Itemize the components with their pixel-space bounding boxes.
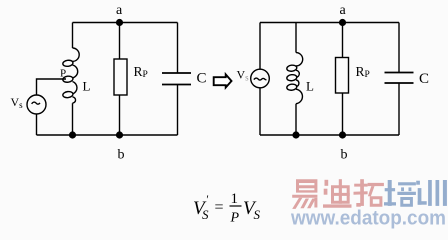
wire: left circuit top rail (73, 22, 178, 24)
svg-text:C: C (419, 71, 429, 87)
svg-text:www.edatop.com: www.edatop.com (290, 208, 446, 230)
wire: left source bottom (36, 114, 38, 135)
wire: right C branch bottom (398, 83, 400, 135)
resistor Rp (right) (336, 58, 349, 94)
char 训 (416, 181, 420, 185)
node b (left) junction dot (116, 131, 123, 138)
svg-text:=: = (215, 199, 224, 216)
wire: right Rp branch bottom (342, 93, 344, 135)
wire: right source branch bottom (259, 88, 261, 135)
wire: left inductor branch top (72, 23, 74, 49)
block arrow (214, 74, 232, 87)
inductor L (right) (286, 53, 302, 104)
svg-text:RP: RP (356, 64, 370, 80)
node b (right) junction dot (339, 131, 346, 138)
node: right bottom junction dot (L branch) (292, 131, 299, 138)
wire: left inductor branch bottom (72, 103, 74, 135)
svg-text:b: b (341, 148, 348, 163)
svg-text:P: P (230, 211, 240, 226)
svg-text:a: a (116, 3, 123, 18)
svg-text:C: C (197, 71, 207, 87)
wire: right C branch top (398, 23, 400, 73)
char 拓 (360, 179, 364, 206)
svg-text:L: L (306, 79, 314, 94)
source Vs' (right) (251, 69, 270, 88)
svg-text:RP: RP (134, 64, 148, 80)
wire: left C branch top (177, 23, 179, 74)
node a (left) junction dot (116, 19, 123, 26)
svg-text:S: S (254, 207, 261, 222)
capacitor C (right) plates (385, 72, 414, 74)
svg-text:Vs: Vs (11, 95, 24, 110)
wire: right circuit bottom rail (260, 134, 399, 136)
svg-text:L: L (83, 79, 91, 94)
char 培 (388, 180, 392, 206)
wire: left circuit bottom rail (37, 134, 178, 136)
formula V's = (1/P) Vs (193, 191, 261, 226)
source Vs (left) (27, 95, 46, 114)
resistor Rp (left) (114, 59, 127, 95)
watermark: Chinese characters 易迪拓培训 (292, 179, 447, 209)
char 迪 (325, 180, 329, 186)
wire: right inductor branch top (295, 23, 297, 53)
wire: right source branch top (259, 23, 261, 70)
wire: left Rp branch top (119, 23, 121, 60)
inductor L (left, tapped) (62, 48, 79, 103)
wire: right inductor branch bottom (295, 104, 297, 135)
char 易 (296, 179, 317, 192)
wire: left C branch bottom (177, 85, 179, 136)
svg-text:1: 1 (231, 191, 239, 207)
wire: right Rp branch top (342, 23, 344, 58)
wire: right circuit top rail (260, 22, 399, 24)
svg-text:b: b (118, 148, 125, 163)
wire: tap wire from source to inductor tap P (37, 79, 67, 95)
svg-text:Vs: Vs (237, 68, 250, 83)
svg-text:': ' (206, 192, 209, 206)
capacitor C (left) plates (162, 72, 191, 74)
node a (right) junction dot (339, 19, 346, 26)
svg-text:S: S (202, 207, 209, 222)
svg-text:P: P (60, 68, 66, 80)
svg-text:a: a (340, 3, 347, 18)
wire: left Rp branch bottom (119, 95, 121, 135)
node: left bottom junction dot (L branch) (69, 131, 76, 138)
